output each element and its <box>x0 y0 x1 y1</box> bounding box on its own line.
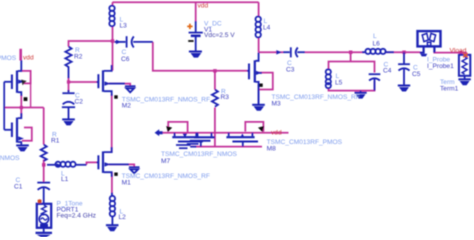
current probe I_Probe1 <box>418 31 441 56</box>
transistor M6 middle horizontal <box>187 133 215 147</box>
marker L1 arrow <box>56 163 61 167</box>
marker M8 loop arrow <box>258 126 264 132</box>
transistor M1 <box>97 147 130 177</box>
inductor L6 <box>362 49 394 54</box>
svg-text:L1: L1 <box>61 176 69 183</box>
svg-text:Feq=2.4 GHz: Feq=2.4 GHz <box>57 213 96 220</box>
inductor L4 <box>256 17 261 38</box>
svg-text:vdd: vdd <box>23 55 34 62</box>
wire mirror out to R1 <box>4 107 44 109</box>
svg-text:M8: M8 <box>267 146 276 153</box>
wire L3 bottom to node A <box>112 27 114 71</box>
wire R3 bottom to bias row <box>214 108 216 147</box>
svg-text:L2: L2 <box>119 214 127 221</box>
node C5 junction <box>402 51 406 55</box>
svg-text:C3: C3 <box>286 67 295 74</box>
svg-text:M1: M1 <box>122 180 131 187</box>
svg-text:L6: L6 <box>373 41 381 48</box>
wire bias row bottom <box>191 146 263 148</box>
svg-text:R2: R2 <box>74 54 83 61</box>
node mirror drain junction <box>20 106 23 109</box>
wire L4 top corner <box>258 2 260 16</box>
svg-text:L4: L4 <box>263 25 271 32</box>
port modified marker <box>38 199 42 203</box>
wire tank loop <box>329 62 375 73</box>
transistor M7 horizontal <box>172 133 203 147</box>
wire R1 bottom node <box>43 160 45 168</box>
svg-text:M2: M2 <box>122 103 131 110</box>
wire M1 source to L2 <box>111 172 113 196</box>
wire L6 right to C5 node <box>385 51 421 53</box>
svg-text:C1: C1 <box>14 184 23 191</box>
marker M4 M3 square <box>24 97 28 101</box>
wire M3 M4 gate chain <box>3 82 5 130</box>
wire vdd top rail <box>113 1 259 3</box>
svg-text:F_NMOS: F_NMOS <box>0 155 20 162</box>
Term1 X marker <box>463 53 467 57</box>
wire C6 right to M5 gate <box>153 42 247 71</box>
wire M4 bulk loop <box>22 71 31 84</box>
node tank junction <box>349 51 353 55</box>
wire tank loop bottom <box>329 81 375 91</box>
wire R2 bottom to C2 <box>68 82 70 92</box>
wire R2 bottom to M2 gate <box>69 78 97 83</box>
marker M7 loop arrow <box>166 126 172 132</box>
wire M5 drain node to C3 <box>259 51 283 53</box>
V1 plus sign <box>187 24 192 29</box>
wire M4 loop down to mirror node <box>30 78 32 108</box>
svg-text:C: C <box>122 49 127 56</box>
resistor R2 <box>65 47 71 79</box>
transistor M2 <box>97 65 126 96</box>
marker M2 square <box>114 95 117 98</box>
terminal Term1 <box>459 55 470 76</box>
svg-text:M7: M7 <box>161 158 170 165</box>
battery V1 <box>189 21 203 39</box>
wire M2 source M1 drain <box>111 94 113 153</box>
ground under left NMOS <box>16 145 29 151</box>
ground under C2 <box>62 119 75 125</box>
capacitor C3 <box>276 47 305 57</box>
svg-text:TSMC_CM013RF_NMOS_RF: TSMC_CM013RF_NMOS_RF <box>122 97 210 104</box>
svg-text:vdd: vdd <box>271 130 282 137</box>
transistor M4 PMOS left <box>4 60 24 96</box>
svg-text:L5: L5 <box>335 80 343 87</box>
svg-text:R1: R1 <box>51 138 60 145</box>
wire R2 top to node A <box>69 41 113 47</box>
transistor M5 cascode <box>247 53 262 105</box>
wire M1 bulk stub <box>106 164 134 167</box>
svg-text:I_Probe1: I_Probe1 <box>427 63 454 70</box>
svg-text:F_PMOS: F_PMOS <box>0 55 17 62</box>
marker M1 square <box>114 173 117 176</box>
node R1 L1 C1 junction <box>42 163 46 167</box>
wire L4 bottom to M5 drain node <box>258 37 260 53</box>
svg-text:C6: C6 <box>121 56 130 63</box>
wire M7 bulk loop <box>168 122 187 132</box>
capacitor C5 <box>398 52 410 85</box>
ground under V1 <box>189 38 202 58</box>
svg-text:TSMC_CM013RF_NMOS_RF: TSMC_CM013RF_NMOS_RF <box>272 94 360 101</box>
wire R3 top <box>214 71 216 90</box>
node R2 C2 gate junction <box>67 80 70 83</box>
ground under L2 <box>106 225 119 231</box>
svg-text:TSMC_CM013RF_PMOS: TSMC_CM013RF_PMOS <box>267 139 343 146</box>
capacitor C1 <box>37 183 50 204</box>
transistor M8 horizontal PMOS <box>226 133 258 147</box>
wire probe right to Term corner <box>434 53 467 56</box>
ground under PORT1 <box>36 228 53 237</box>
ground bulk M2 hollow <box>125 86 136 92</box>
inductor L1 <box>47 162 87 167</box>
ground under Term1 <box>458 76 470 85</box>
node Vload junction <box>459 51 462 54</box>
svg-text:R3: R3 <box>221 94 230 101</box>
ground under M5 <box>252 84 265 111</box>
wire L1 right to M1 gate <box>87 162 97 164</box>
wire M3 bulk loop <box>22 128 32 141</box>
wire bias vdd stub <box>256 132 289 134</box>
inductor L2 <box>110 193 115 226</box>
ground bars under M7 <box>176 145 191 148</box>
wire M4 M3 drain link <box>20 95 22 117</box>
resistor R3 <box>212 90 218 107</box>
marker M4 loop arrow <box>21 80 27 86</box>
ground under tank <box>355 91 367 99</box>
inductor L3 <box>109 6 114 27</box>
svg-text:C2: C2 <box>75 99 84 106</box>
svg-text:TSMC_CM013RF_NMOS_RF: TSMC_CM013RF_NMOS_RF <box>122 173 210 180</box>
inductor L5 <box>326 69 331 88</box>
wire M5 bulk loop <box>258 73 273 90</box>
svg-text:L: L <box>373 33 377 40</box>
wire vdd stub top left <box>19 49 22 61</box>
capacitor C6 <box>115 36 153 47</box>
marker M5 square <box>259 84 262 87</box>
wire tank node down <box>350 52 352 61</box>
svg-text:L3: L3 <box>120 23 128 30</box>
pin connector bias input <box>155 129 163 136</box>
svg-text:Vload: Vload <box>450 48 467 55</box>
svg-text:TSMC_CM013RF_NMOS: TSMC_CM013RF_NMOS <box>161 151 237 158</box>
wire C3 right to tank node <box>305 51 365 53</box>
capacitor C2 <box>62 90 75 119</box>
transistor M3 NMOS left <box>4 113 24 146</box>
svg-text:C5: C5 <box>412 71 421 78</box>
svg-text:C4: C4 <box>383 68 392 75</box>
wire M8 bulk loop <box>245 122 263 132</box>
ground under C5 <box>398 86 410 92</box>
port P_1Tone PORT1 <box>37 204 51 228</box>
resistor R1 <box>41 145 47 161</box>
wire vdd stub V1 <box>195 2 197 21</box>
wire bias row horizontal <box>162 132 256 134</box>
wire R1 top <box>43 108 45 145</box>
node R3 gate junction <box>213 69 217 73</box>
svg-text:Vdc=2.5 V: Vdc=2.5 V <box>204 32 235 39</box>
ground bulk M1 hollow <box>129 167 140 173</box>
wire C1 top <box>43 165 45 182</box>
node A junction L3 R2 M2 <box>111 39 115 43</box>
wire M2 bulk stub <box>106 84 130 86</box>
capacitor C4 <box>369 74 381 90</box>
svg-text:M3: M3 <box>272 101 281 108</box>
svg-text:vdd: vdd <box>198 3 209 10</box>
wire L3 top stub <box>112 2 114 6</box>
svg-text:Term1: Term1 <box>440 86 459 93</box>
V1 minus sign <box>188 40 193 42</box>
